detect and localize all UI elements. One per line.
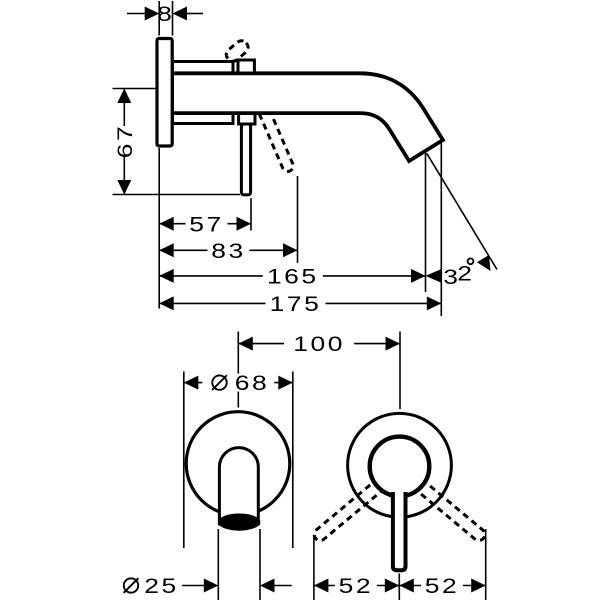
svg-text:52: 52 bbox=[425, 575, 459, 599]
svg-text:83: 83 bbox=[211, 239, 245, 263]
svg-text:67: 67 bbox=[113, 124, 137, 158]
svg-text:68: 68 bbox=[235, 372, 269, 396]
svg-text:25: 25 bbox=[144, 575, 178, 599]
svg-text:8: 8 bbox=[157, 3, 174, 27]
svg-text:100: 100 bbox=[293, 333, 345, 357]
svg-text:175: 175 bbox=[270, 293, 322, 317]
svg-text:57: 57 bbox=[189, 213, 223, 237]
svg-text:165: 165 bbox=[267, 265, 319, 289]
svg-text:3: 3 bbox=[443, 266, 458, 290]
svg-text:2: 2 bbox=[457, 262, 472, 286]
svg-text:52: 52 bbox=[339, 575, 373, 599]
